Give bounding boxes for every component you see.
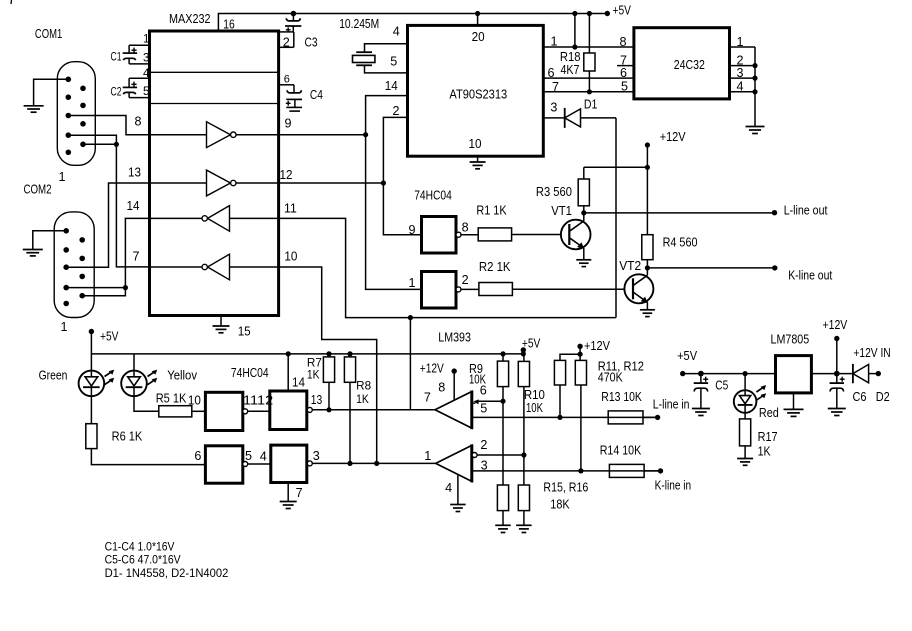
wire COM1 pin to ground [34,79,69,106]
capacitor C5 47uF [694,374,708,384]
connector COM1 DB9 outline [57,62,95,166]
svg-text:10.245M: 10.245M [339,17,379,31]
svg-text:1K: 1K [356,392,369,406]
svg-text:LM393: LM393 [438,330,471,344]
ground R16 [516,525,532,532]
node +5V power terminal [680,371,685,376]
svg-text:1: 1 [61,320,68,334]
wire COM2 pin spur [66,287,125,289]
led Red arrows [756,385,766,400]
svg-text:5: 5 [245,449,252,463]
svg-text:+12V: +12V [660,130,686,144]
buffer MAX232 R2 pin10 to pin7 [230,266,279,268]
resistor R13 10K [608,411,643,424]
svg-text:1: 1 [424,449,431,463]
wire +5V LED rail horizontal [91,353,523,355]
buffer MAX232 T1 pin13 to pin12 [151,182,207,184]
wire AT90S2313 pin 1 to 24C32 pin 8 [543,46,634,48]
svg-text:COM2: COM2 [24,183,52,197]
wire VT1 collector [583,213,585,221]
wire R6 to 74HC04 pin 6 [91,449,205,465]
svg-text:R8: R8 [356,379,371,393]
node junction pin12 net [381,180,386,185]
wire COM2 pin to ground [33,231,66,250]
svg-text:4K7: 4K7 [561,63,580,77]
svg-text:+5V: +5V [613,4,632,18]
ic AT90S2313 body [408,25,544,156]
ground 74HC04 pin 7 [280,502,297,509]
svg-text:3: 3 [550,100,557,114]
resistor R16 18K [518,485,529,511]
wire 24C32 pin 7 stub [617,65,634,67]
wire LM393 pin 2 with bubble [472,453,524,458]
ground R15 [495,525,511,532]
wire AT90S2313 pin 7 to 24C32 pin 5 [543,91,634,93]
led Green LED [79,371,105,397]
svg-text:L-line in: L-line in [653,398,690,412]
resistor R5 1K [159,406,192,417]
resistor R2 1K [479,283,513,296]
ground AT90S2313 pin 10 [470,162,486,169]
svg-text:R15, R16: R15, R16 [543,480,588,494]
svg-text:4: 4 [445,481,452,495]
wire AT90S2313 pin 10 to ground [477,156,479,162]
resistor R6 1K [86,424,97,449]
svg-text:10: 10 [469,137,482,151]
svg-text:3: 3 [143,52,149,65]
wire LM393 pin 3 K-line sense [472,470,661,472]
ground R17 [737,459,753,466]
wire MAX232 pin 15 to ground [220,316,222,327]
wire LM7805 ground pin [793,393,795,410]
connector COM2 DB9 outline [54,212,94,318]
wire 74HC04 pin 14 to +5V rail [287,354,289,391]
wire R16 to ground [523,511,525,526]
svg-text:R5 1K: R5 1K [156,392,187,406]
svg-text:C2: C2 [111,86,122,99]
wire R2 to VT2 base [512,288,624,290]
svg-text:18K: 18K [550,497,570,511]
node L-line out terminal [772,210,777,215]
node junction Red LED [743,371,748,376]
divider MAX232 internal line 2 [150,103,279,105]
svg-text:+12V: +12V [823,318,848,332]
node junction pin 2 ground bus [752,63,757,68]
wire R17 to ground [744,446,746,459]
svg-text:R18: R18 [560,50,581,64]
svg-text:5: 5 [480,401,487,415]
svg-text:Yellov: Yellov [167,369,197,383]
node L-line in terminal [655,415,660,420]
svg-text:VT1: VT1 [551,204,572,218]
node junction R7 rail [326,351,331,356]
diode D2 1N4002 [853,364,878,383]
ground C5 [692,409,710,416]
node junction COM2 spur [123,285,128,290]
svg-text:4: 4 [143,67,150,80]
node junction pin10 net at comparator 2 output [374,461,379,466]
svg-text:R13 10K: R13 10K [601,390,642,404]
svg-text:LM7805: LM7805 [771,333,810,347]
resistor R17 1K [740,419,751,446]
transistor VT2 [624,274,653,303]
led Yellow LED [121,371,147,397]
node junction AT90S2313 pin 20 on rail [475,11,480,16]
wire VT2 collector [646,268,648,275]
svg-text:R1 1K: R1 1K [476,203,507,217]
svg-text:+12V: +12V [584,339,611,353]
wire AT90S2313 pin 14 net vertical to 74HC04 pin 1 [366,96,422,290]
ground 24C32 [746,127,765,134]
resistor R14 10K [609,464,644,477]
wire COM1 second pin spur [83,143,116,145]
ground COM1 [24,106,44,112]
ground LM393 pin 4 [450,505,466,512]
node junction R8 rail [347,351,352,356]
svg-text:C1: C1 [111,51,122,64]
wire +12V to comparator 1 pin 8 [453,371,455,400]
wire 24C32 pin 1 to ground bus [730,46,756,48]
svg-text:K-line in: K-line in [655,478,692,492]
svg-text:D1- 1N4558, D2-1N4002: D1- 1N4558, D2-1N4002 [105,566,229,580]
node junction rail to R18 [587,11,592,16]
wire R14 to K-line in [644,470,660,472]
resistor R8 1K [349,354,351,357]
label C5 plus [703,377,708,382]
wire 24C32 pin 2 to ground bus [730,65,756,67]
wire to Red LED [744,374,746,391]
svg-text:1: 1 [143,33,149,46]
node junction pin 14 rail [286,351,291,356]
svg-text:74HC04: 74HC04 [231,366,269,380]
svg-text:R17: R17 [758,430,778,444]
ground LM7805 [784,409,804,416]
wire crystal to AT90S2313 pin 5 [365,65,409,73]
svg-text:470K: 470K [598,371,623,385]
node +5V middle terminal [521,347,526,352]
connector COM2 pins [63,228,85,306]
svg-text:4: 4 [260,449,267,463]
wire MAX232 pin 11 to RX bus [279,218,616,317]
node junction R18 bottom [587,89,592,94]
wire COM1 to MAX232 pin 7 [68,135,149,267]
wire 74HC04 pin 7 to ground [287,483,289,502]
node junction C5 [698,371,704,377]
label C6 plus [840,377,845,382]
node +5V terminal top right [605,11,610,16]
resistor R7 1K [328,354,330,357]
node junction +12V distribution [645,165,650,170]
wire VT1 emitter to ground [583,248,585,260]
wire AT90S2313 pin 6 to 24C32 pin 6 [543,77,634,79]
svg-text:+5V: +5V [677,349,698,363]
wire gate 13 output to LM393 comparator 1 line [312,409,435,411]
svg-text:9: 9 [285,117,292,131]
wire R11 to pin 5 line [559,385,561,417]
wire R5 to 74HC04 pin 10 [192,410,206,412]
svg-text:R2 1K: R2 1K [479,260,511,274]
wire MAX232 pin 10 to LM393 comparator 2 output [279,267,377,463]
wire R15 to ground [502,511,504,526]
resistor R11 470K [554,360,565,385]
wire AT90S2313 pin 20 to +5V rail [477,14,479,26]
wire +12V to R11 R12 tie [579,346,581,360]
node junction R11 R12 tie [578,352,583,357]
svg-text:AT90S2313: AT90S2313 [449,87,507,101]
buffer MAX232 T2 pin8 to pin9 [151,134,207,136]
svg-text:6: 6 [194,449,201,463]
node junction pin 4 ground bus [752,89,757,94]
wire LM7805 output to D2 [811,373,853,375]
svg-text:R3 560: R3 560 [536,185,572,199]
svg-text:R10: R10 [524,388,545,402]
svg-text:10: 10 [284,250,297,264]
wire gate output to R1 [461,234,478,236]
svg-text:6: 6 [284,73,290,85]
wire 24C32 ground bus vertical [754,47,756,126]
svg-text:C5: C5 [715,379,728,393]
svg-text:13: 13 [128,166,141,180]
wire COM2 to MAX232 pin 13 [66,183,149,267]
capacitor C6 47uF [830,374,844,384]
connector COM1 pins [66,77,86,156]
svg-text:C6: C6 [853,390,867,404]
node junction R10 rail [521,351,526,356]
wire R9 junction to R15 [502,401,504,485]
wire gate 5 to gate 4 [248,463,271,465]
resistor R1 1K [478,228,511,241]
resistor R10 10K [523,354,525,362]
gate 74HC04 pin4 to pin3 [271,445,307,482]
svg-text:1: 1 [409,276,416,290]
svg-text:Red: Red [759,406,779,420]
svg-text:9: 9 [409,223,416,237]
svg-text:8: 8 [135,114,142,128]
capacitor C4 with pin 6 and ground [279,85,294,93]
svg-text:74HC04: 74HC04 [414,189,452,203]
gate 74HC04 pin9 to pin8 [422,217,457,254]
node +5V terminal left [89,329,94,334]
node +12V power terminal [834,336,839,341]
wire D1 anode down to RX bus [615,118,617,318]
wire AT90S2313 pin 4 to crystal [365,44,409,52]
wire R1 to VT1 base [512,234,561,236]
wire R10 junction to R16 [523,455,525,485]
node junction pin 2 R10 R16 divider [521,452,526,457]
capacitor C1 with pins 1 and 3 [123,45,150,64]
resistor R18 4K7 [588,14,590,54]
svg-text:C1-C4 1.0*16V: C1-C4 1.0*16V [105,539,175,553]
gate 74HC04 pin6 to pin5 [205,446,242,483]
gate 74HC04 pin1 to pin2 [422,272,457,309]
svg-text:15: 15 [238,324,251,338]
wire +5V to LED rail [90,332,92,371]
ic MAX232 body [150,31,279,316]
led Red LED [734,390,757,413]
resistor R15 18K [497,485,508,511]
node K-line out terminal [772,265,777,270]
svg-text:20: 20 [472,30,485,44]
ground VT1 [576,260,591,267]
diode D1 1N4558 [543,108,616,128]
svg-text:C3: C3 [305,35,318,49]
svg-text:+12V IN: +12V IN [853,346,890,360]
wire +5V top rail from MAX232 pin 16 to +5V terminal [218,14,607,32]
svg-text:7: 7 [296,486,303,500]
svg-text:5: 5 [143,85,149,98]
node junction pin1 net [572,44,577,49]
wire MAX232 pin 9 to AT90 pin 14 net [279,134,366,136]
svg-text:3: 3 [313,449,320,463]
svg-text:D1: D1 [584,98,598,112]
node K-line in terminal [658,468,663,473]
node junction pin9 net [363,132,368,137]
wire +12V to rail [836,339,838,374]
wire +12V junction to R4 [646,167,648,234]
svg-text:1K: 1K [758,444,772,458]
wire +12V junction to R3 [584,166,648,168]
wire K-line out [647,267,774,269]
svg-text:7: 7 [424,391,431,405]
gate 74HC04 pin12 to pin13 [270,391,307,430]
capacitor C2 with pins 4 and 5 [123,78,150,97]
svg-text:R14 10K: R14 10K [600,444,642,458]
node +12V comparator terminal [452,368,457,373]
wire power rail to LM7805 input [683,373,776,375]
wire R12 to pin 3 line [580,385,582,471]
svg-text:16: 16 [223,17,235,31]
wire rail branch to Yellow LED [133,354,135,371]
ic 24C32 body [634,28,730,99]
node junction pin 5 R11 [557,415,562,420]
node junction RX bus to comparator output [408,315,413,320]
svg-text:+12V: +12V [420,362,444,376]
wire AT90S2313 pin 2 net vertical to 74HC04 pin 9 [383,117,421,234]
ic LM7805 body [776,356,812,393]
resistor R3 560 [583,167,585,179]
gate 74HC04 pin10 to pin11 [205,392,242,430]
node junction rail to 24C32 pin 8 [572,11,577,16]
svg-text:11: 11 [284,202,297,216]
svg-text:10K: 10K [469,372,486,386]
node junction R9 rail [500,351,505,356]
svg-text:10: 10 [188,393,201,407]
node junction pin 3 R12 [578,468,583,473]
svg-text:14: 14 [385,79,398,93]
svg-text:+5V: +5V [100,330,119,344]
wire MAX232 pin 14 to COM2 [82,218,149,295]
node junction pin 6 R9 R15 divider [500,399,505,404]
wire COM1 to MAX232 pin 8 [68,116,149,135]
wire VT2 emitter to ground [646,302,648,310]
node +12V middle terminal [577,344,582,349]
wire gate 3 output to LM393 comparator 2 line [312,462,436,464]
op-amp LM393 comparator 2 [436,444,472,482]
svg-text:R6 1K: R6 1K [112,430,143,444]
wire tie to R11 [560,354,580,360]
svg-text:7: 7 [133,249,140,263]
ground COM2 [23,250,43,256]
svg-text:1: 1 [59,170,66,184]
node junction R8 comparator 2 line [347,461,352,466]
svg-text:14: 14 [292,375,305,389]
svg-text:13: 13 [311,393,323,407]
wire 24C32 pin 4 to ground bus [730,91,756,93]
svg-text:K-line out: K-line out [788,269,833,283]
wire MAX232 pin 12 to AT90 pin 2 net [279,182,384,184]
wire Green LED to R6 [90,396,92,424]
wire LM393 pin 5 L-line sense [472,416,658,418]
wire R13 to L-line in [643,416,658,418]
node junction pin 3 ground bus [752,76,757,81]
svg-text:12: 12 [280,168,293,182]
svg-text:1K: 1K [307,368,320,382]
svg-text:5: 5 [621,80,628,94]
transistor VT1 [561,220,591,250]
svg-text:6: 6 [620,66,627,80]
node junction COM1 spur [114,142,119,147]
node junction C6 [834,371,840,377]
wire Red LED to R17 [744,413,746,419]
svg-text:C4: C4 [310,88,323,102]
wire +12V down to junction [646,145,648,167]
svg-text:2: 2 [480,438,487,452]
svg-text:5: 5 [390,55,397,69]
svg-text:COM1: COM1 [35,27,62,41]
wire RX bus down to LM393 output [409,318,411,410]
svg-text:Green: Green [39,368,68,382]
divider MAX232 internal line 1 [150,71,279,73]
capacitor C3 with pin 2 [292,14,294,21]
crystal X1 10.245M [353,52,375,65]
wire gate 11 to gate 12 [248,410,270,412]
svg-text:8: 8 [620,35,627,49]
svg-text:14: 14 [127,199,140,213]
op-amp LM393 comparator 1 [435,391,472,430]
wire LM393 pin 4 to ground [457,475,459,505]
wire 24C32 pin 3 to ground bus [730,77,756,79]
resistor R4 560 [642,235,653,260]
wire +5V rail branch to pin1 net [574,14,576,48]
wire L-line out [584,212,775,214]
svg-text:4: 4 [393,24,400,38]
svg-text:2: 2 [393,104,400,118]
ground MAX232 pin 15 [213,326,230,333]
led Green arrows [105,370,115,385]
svg-text:R4 560: R4 560 [663,236,698,250]
svg-text:VT2: VT2 [619,259,641,273]
node +12V IN terminal [876,371,881,376]
node junction R3 VT1 collector L-line out [581,210,586,215]
wire gate output to R2 [461,288,479,290]
resistor R9 10K [502,354,504,361]
node junction C3 on +5V rail [291,11,297,17]
svg-text:8: 8 [438,381,445,395]
svg-text:MAX232: MAX232 [169,12,211,26]
node junction R7 comparator 1 line [326,407,331,412]
node junction R4 VT2 collector K-line out [645,265,650,270]
led Yellow arrows [148,370,158,385]
svg-text:C5-C6 47.0*16V: C5-C6 47.0*16V [105,553,181,567]
ground C6 [828,409,846,416]
svg-text:2: 2 [283,36,290,50]
resistor R12 470K [575,360,586,385]
wire Yellow LED to R5 [134,396,159,411]
svg-text:L-line out: L-line out [784,204,828,218]
wire LM393 pin 6 with arrow [472,399,503,404]
svg-text:8: 8 [462,220,469,234]
buffer MAX232 R1 pin11 to pin14 [230,217,279,219]
